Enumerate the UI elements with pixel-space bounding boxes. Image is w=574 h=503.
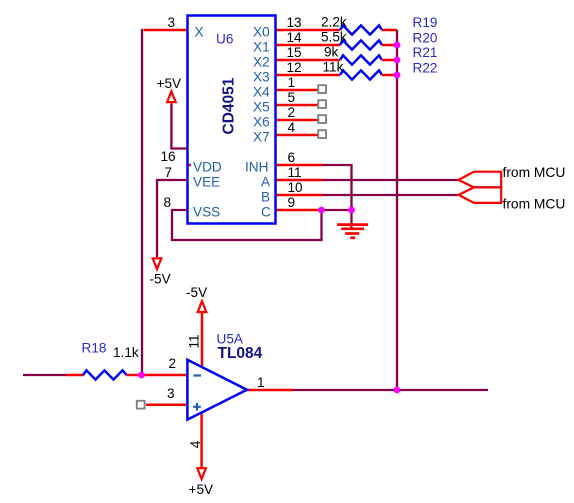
svg-text:B: B	[261, 189, 270, 204]
svg-text:1: 1	[257, 375, 265, 390]
no-connect square pin 3	[137, 401, 145, 409]
svg-text:X2: X2	[253, 54, 270, 69]
resistor R19 label	[413, 15, 438, 30]
svg-text:X7: X7	[253, 129, 270, 144]
svg-text:9k: 9k	[324, 45, 339, 60]
pin 11 (V-)	[187, 312, 203, 366]
port from MCU (B)	[459, 187, 566, 211]
resistor R22 value 11k	[323, 60, 344, 75]
op-amp U5A designator	[217, 332, 244, 347]
svg-text:1: 1	[288, 75, 296, 90]
resistor R20 label	[413, 31, 438, 46]
svg-text:R20: R20	[413, 31, 438, 46]
junction dot output at bus	[394, 387, 401, 394]
svg-text:4: 4	[188, 440, 203, 448]
op-amp plus sign	[193, 403, 201, 411]
svg-text:12: 12	[287, 60, 302, 75]
svg-text:X6: X6	[253, 114, 270, 129]
pin X6 (2)	[253, 105, 318, 129]
IC U6 body	[188, 16, 276, 224]
wire net A to MCU port	[322, 179, 459, 181]
resistor R19	[340, 25, 397, 34]
svg-text:A: A	[261, 174, 271, 189]
pin A (11)	[261, 165, 323, 189]
svg-text:7: 7	[165, 165, 173, 180]
pin X1 (14)	[253, 30, 340, 54]
svg-text:16: 16	[161, 149, 176, 164]
wire input net (left dangling)	[23, 374, 66, 376]
svg-text:VSS: VSS	[193, 204, 220, 219]
junction dot bus R21	[394, 57, 401, 64]
power -5V symbol (VEE supply)	[150, 258, 171, 286]
svg-text:X0: X0	[253, 24, 270, 39]
IC U6 part type CD4051	[221, 77, 238, 134]
wire +5V to VDD	[171, 104, 187, 149]
svg-text:13: 13	[287, 15, 302, 30]
pin 2 (inverting input)	[142, 356, 188, 375]
wire INH to ground net	[322, 165, 352, 210]
junction dot op-amp inverting input	[138, 372, 145, 379]
resistor R18	[66, 370, 142, 379]
svg-text:+5V: +5V	[157, 76, 182, 91]
svg-text:VDD: VDD	[193, 159, 222, 174]
svg-text:CD4051: CD4051	[221, 77, 238, 134]
svg-text:+5V: +5V	[189, 482, 214, 497]
svg-text:10: 10	[288, 180, 304, 195]
pin X7 (4)	[253, 120, 318, 144]
pin C (9)	[261, 195, 322, 219]
op-amp minus sign	[194, 374, 202, 376]
junction dot C-net at VSS riser	[318, 207, 325, 214]
svg-text:11k: 11k	[323, 60, 344, 75]
wire output net	[293, 389, 488, 391]
svg-text:R22: R22	[413, 61, 438, 76]
svg-text:-5V: -5V	[186, 285, 207, 300]
no-connect square X7	[318, 130, 326, 138]
junction dot bus R22	[394, 72, 401, 79]
ground	[337, 225, 368, 238]
svg-text:INH: INH	[245, 159, 268, 174]
pin X2 (15)	[253, 45, 340, 69]
no-connect square X5	[318, 100, 326, 108]
resistor R22	[340, 70, 397, 79]
svg-text:3: 3	[168, 15, 176, 30]
resistor R22 label	[413, 61, 438, 76]
power +5V symbol (op-amp V+)	[189, 468, 214, 497]
wire VSS to ground junction	[172, 210, 322, 240]
svg-text:R18: R18	[82, 341, 107, 356]
power +5V symbol (VDD supply)	[157, 76, 182, 102]
svg-text:VEE: VEE	[193, 174, 220, 189]
svg-text:from MCU: from MCU	[503, 165, 566, 180]
svg-text:5.5k: 5.5k	[321, 30, 347, 45]
op-amp U5A body	[187, 360, 247, 420]
svg-text:X5: X5	[253, 99, 270, 114]
resistor R19 value 2.2k	[321, 15, 347, 30]
svg-text:8: 8	[164, 195, 172, 210]
resistor R20 value 5.5k	[321, 30, 347, 45]
svg-text:R21: R21	[413, 45, 438, 60]
svg-text:X: X	[195, 24, 204, 39]
svg-text:2: 2	[169, 356, 177, 371]
power -5V symbol (op-amp V-)	[186, 285, 207, 312]
op-amp part type TL084	[218, 345, 263, 362]
pin 4 (V+)	[188, 413, 203, 468]
svg-text:X1: X1	[253, 39, 270, 54]
pin VEE (7)	[165, 165, 221, 189]
pin X5 (5)	[253, 90, 318, 114]
svg-text:from MCU: from MCU	[503, 197, 566, 212]
svg-text:C: C	[261, 204, 271, 219]
junction dot bus R20	[394, 42, 401, 49]
wire net B to MCU port	[322, 194, 459, 196]
svg-text:1.1k: 1.1k	[113, 345, 139, 360]
svg-text:4: 4	[288, 120, 296, 135]
wire net C to ground	[321, 209, 352, 211]
svg-text:U6: U6	[216, 32, 233, 47]
wire ground stub	[350, 210, 352, 228]
pin X0 (13)	[253, 15, 340, 39]
pin 1 (output)	[246, 375, 293, 390]
pin VDD (16)	[161, 149, 222, 174]
no-connect square X6	[318, 115, 326, 123]
resistor R21 value 9k	[324, 45, 339, 60]
wire net X vertical (pin 3 to op-amp input junction)	[142, 30, 144, 375]
svg-text:5: 5	[288, 90, 296, 105]
resistor R21 label	[413, 45, 438, 60]
no-connect square X4	[318, 85, 326, 93]
svg-text:15: 15	[287, 45, 302, 60]
pin INH (6)	[245, 150, 323, 174]
wire VEE to -5V	[157, 180, 187, 257]
pin X3 (12)	[253, 60, 340, 84]
resistor R20	[340, 40, 397, 49]
port from MCU (A)	[459, 165, 566, 188]
IC U6 designator	[216, 32, 233, 47]
svg-text:X3: X3	[253, 69, 270, 84]
resistor R18 label	[82, 341, 107, 356]
svg-text:6: 6	[288, 150, 296, 165]
junction dot C-net at ground	[348, 207, 355, 214]
svg-text:14: 14	[287, 30, 303, 45]
pin VSS (8)	[164, 195, 221, 219]
pin X (3)	[144, 15, 204, 39]
svg-text:2.2k: 2.2k	[321, 15, 347, 30]
svg-text:TL084: TL084	[218, 345, 263, 362]
svg-text:11: 11	[288, 165, 302, 180]
resistor R18 value 1.1k	[113, 345, 139, 360]
pin 3 (non-inverting input)	[146, 386, 187, 405]
pin B (10)	[261, 180, 323, 204]
svg-text:-5V: -5V	[150, 272, 171, 287]
svg-text:2: 2	[288, 105, 296, 120]
svg-text:R19: R19	[413, 15, 438, 30]
svg-text:11: 11	[187, 334, 202, 348]
svg-text:9: 9	[288, 195, 296, 210]
wire resistor bus vertical	[396, 30, 398, 390]
resistor R21	[340, 55, 397, 64]
pin X4 (1)	[253, 75, 318, 99]
svg-text:X4: X4	[253, 84, 270, 99]
svg-text:3: 3	[167, 386, 175, 401]
